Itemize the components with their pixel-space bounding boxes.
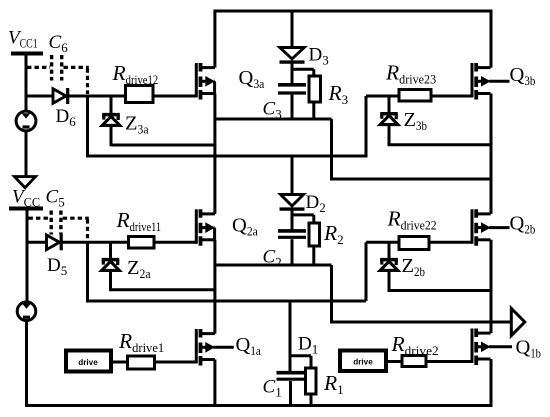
- svg-text:drive: drive: [78, 357, 98, 367]
- svg-text:drive: drive: [353, 357, 373, 367]
